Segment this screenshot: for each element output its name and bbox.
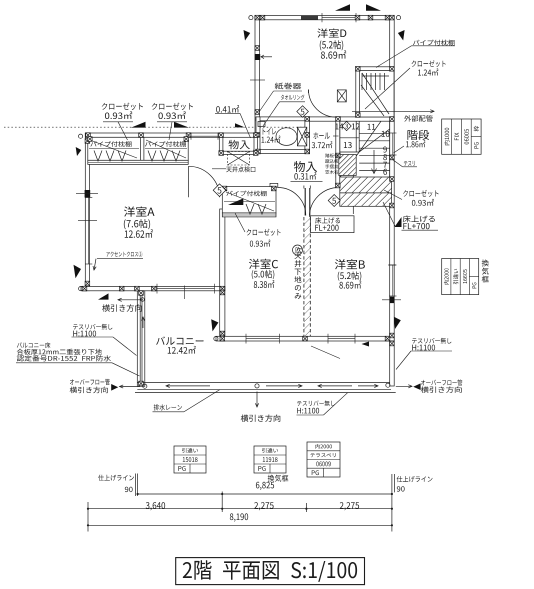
window tag 06009 r3 xyxy=(312,470,319,475)
pull-dir left arrow xyxy=(118,299,143,301)
room D closet inner lines xyxy=(358,70,360,117)
stairs treads left xyxy=(340,137,359,139)
B window top tick xyxy=(388,264,396,266)
ceiling-only vertical xyxy=(294,253,301,299)
dim line 3640/2275/2275 xyxy=(88,508,392,510)
storage 0.41 area xyxy=(216,105,239,113)
diamond num xyxy=(345,124,348,129)
flag overflow-right xyxy=(413,383,420,390)
flag balcony-right xyxy=(394,317,401,329)
raise floor 700 label xyxy=(403,215,435,222)
window tag 15018 xyxy=(174,446,206,473)
dim 8190 xyxy=(230,513,248,521)
wall: main top wall xyxy=(85,133,259,137)
window tag 16605 c3 xyxy=(472,283,476,289)
hall label xyxy=(313,132,329,139)
closet C label xyxy=(247,229,281,236)
room A closet box xyxy=(88,137,188,160)
leader closet C xyxy=(235,213,245,232)
balcony area xyxy=(168,346,196,354)
flag south-window xyxy=(362,342,370,347)
sn10 xyxy=(382,131,390,137)
dim line 8190 xyxy=(88,524,392,526)
leader 0.41 xyxy=(215,112,240,114)
overflow R2 xyxy=(421,386,462,393)
balcony right parapet xyxy=(390,341,395,386)
balcony bottom parapet xyxy=(137,382,391,384)
tiny note3 xyxy=(325,165,338,169)
drain slope arrows xyxy=(166,385,210,387)
diamond num xyxy=(332,198,336,204)
flag FL+700 xyxy=(395,217,402,227)
dim 6825 xyxy=(256,482,274,490)
wall mark square D-left xyxy=(255,54,260,60)
tiny note1 xyxy=(325,154,338,158)
external piping arrow xyxy=(352,110,434,112)
flag balcony-C-wall xyxy=(211,319,218,331)
overflow-right arrow xyxy=(396,385,412,387)
storage 0.31 underline xyxy=(291,180,323,182)
title box xyxy=(176,558,365,585)
room C closet door track xyxy=(222,213,276,217)
stairs outline xyxy=(339,121,341,177)
wall: toilet left wall xyxy=(256,117,260,153)
balcony up arrow xyxy=(142,317,144,328)
equipment box xyxy=(337,90,346,102)
toilet paper holder xyxy=(258,122,265,127)
wall: hall/stair top wall xyxy=(310,117,393,121)
stairs treads right xyxy=(359,132,390,134)
ceiling access hatch xyxy=(228,152,250,166)
room B area xyxy=(339,281,361,289)
window tag 11918 xyxy=(254,446,286,473)
balcony note 2 xyxy=(17,349,102,355)
wall: storage 0.31 right wall xyxy=(336,153,340,187)
tiny note4 xyxy=(325,170,338,174)
overflow-left arrow xyxy=(120,386,141,388)
closet A2 label xyxy=(152,103,193,110)
finish line R xyxy=(397,476,433,482)
window: corridor north window xyxy=(191,135,218,137)
room B tatami xyxy=(338,271,362,280)
tesuri-bar L2 xyxy=(73,331,96,337)
flags on eave line xyxy=(131,122,146,128)
diamond num xyxy=(301,109,305,115)
leader tesuri xyxy=(403,166,418,168)
leader paper holder xyxy=(274,90,303,92)
A south window divider xyxy=(184,286,186,300)
finish line L 90 xyxy=(125,487,133,492)
leader tesuri-bar R xyxy=(411,350,452,352)
room A label xyxy=(124,206,155,216)
waku A xyxy=(474,126,479,131)
wall: storage 0.41 right wall xyxy=(254,137,257,154)
raise floor 700 fl xyxy=(403,223,429,229)
storage 0.31 area xyxy=(294,172,316,180)
balcony wall circle xyxy=(141,298,145,302)
sn11 xyxy=(368,124,376,130)
flag storage-0.41 xyxy=(235,123,245,127)
sn13 xyxy=(344,142,352,148)
room B label xyxy=(335,259,365,269)
wall: house right wall xyxy=(390,16,395,342)
sn8 xyxy=(383,154,387,160)
overflow L1 xyxy=(70,379,110,385)
tesuri-bar L1 xyxy=(73,324,112,330)
sn9 xyxy=(383,146,387,152)
room C closet shelf xyxy=(224,201,275,203)
wall: room D left xyxy=(255,16,260,138)
dim 3640 xyxy=(146,502,165,510)
window: room A south window xyxy=(157,288,215,290)
closet1 hanger marks xyxy=(94,151,102,162)
stair label xyxy=(407,130,429,140)
eave dotted line xyxy=(4,126,308,128)
balcony label xyxy=(156,337,203,345)
balcony left parapet xyxy=(137,291,145,387)
room A closet door track xyxy=(88,160,188,164)
sn7 xyxy=(383,162,387,168)
wall mark square B-right xyxy=(390,297,395,304)
toilet tank xyxy=(297,127,306,146)
door tag 3 (stairs) xyxy=(342,121,351,130)
door tag 5 (toilet) xyxy=(297,106,309,118)
accent cloth label xyxy=(107,251,143,257)
storage 0.31 double door left xyxy=(278,188,306,216)
flag D-right xyxy=(398,30,405,41)
flag balcony-left xyxy=(98,293,109,299)
window: stair FIX window xyxy=(392,133,394,155)
window tag 06009 r1 xyxy=(310,453,335,457)
sn6 xyxy=(383,169,387,175)
stair area xyxy=(406,140,425,147)
wall mark square A-left xyxy=(85,190,91,198)
window tag 16605 xyxy=(442,259,479,295)
window tag 11918 r2 xyxy=(258,466,265,471)
extension ticks xyxy=(221,492,223,513)
door tag 5 (C closet) xyxy=(213,184,226,197)
FL+200 raised floor xyxy=(339,155,356,176)
leader stairs xyxy=(394,146,405,153)
dim 2275b xyxy=(340,502,359,510)
finish line L xyxy=(98,475,134,481)
leader closet R xyxy=(384,190,402,200)
pipe shelf C xyxy=(226,191,266,197)
title text xyxy=(183,560,357,582)
leader closet D xyxy=(365,68,410,109)
shear wall fill xyxy=(301,16,318,20)
window tag 06005 c0 xyxy=(444,128,449,146)
closet R label xyxy=(403,190,438,197)
flags D-top xyxy=(335,4,350,11)
stairs divider xyxy=(355,121,357,152)
circled mark xyxy=(293,245,303,255)
finish line R 90 xyxy=(397,486,405,491)
leader tesuri-bar bottom xyxy=(297,414,324,416)
room D tatami xyxy=(320,40,343,50)
paper holder label xyxy=(275,83,301,90)
vent frame right xyxy=(482,260,489,283)
FL+200 leader arrow xyxy=(352,170,354,214)
leader FL+700 xyxy=(402,229,439,231)
overflow L2 xyxy=(70,387,108,394)
tesuri-bar B1 xyxy=(297,400,335,406)
down arrow drain xyxy=(256,392,258,408)
dim line 6825 xyxy=(138,493,392,495)
closet R area xyxy=(412,199,434,206)
closet C area xyxy=(250,240,270,247)
door tag 5 (storage 0.31) xyxy=(328,195,340,207)
D left wall tick xyxy=(250,79,265,81)
pull dir bottom xyxy=(241,415,281,422)
wall: storage 0.31 bottom stub xyxy=(270,183,278,187)
room A tatami xyxy=(124,219,150,229)
room C tatami xyxy=(252,270,275,279)
pipe shelf A1 xyxy=(90,141,131,147)
pipe shelf A2 xyxy=(145,141,186,147)
leader drain lane xyxy=(153,411,185,413)
window tag 15018 r0 xyxy=(182,448,198,453)
closet2 hanger marks xyxy=(148,151,156,162)
room C label xyxy=(249,259,278,269)
storage 0.31 double door right xyxy=(309,188,339,218)
balcony note 3 xyxy=(17,355,111,361)
storage 0.41 label xyxy=(229,140,250,149)
window tag 06009 xyxy=(307,442,340,477)
closet shelf lines xyxy=(89,148,139,150)
closet under stairs xyxy=(340,177,392,206)
toilet label xyxy=(263,128,276,135)
window tag 11918 r1 xyxy=(263,457,278,462)
room A area xyxy=(125,229,153,238)
room A closet divider xyxy=(140,137,142,160)
room C closet box xyxy=(222,187,276,213)
closet A2 area xyxy=(158,111,185,119)
wall: main left wall xyxy=(85,133,89,291)
room D label xyxy=(317,28,346,37)
toilet bowl xyxy=(276,128,297,146)
dim dots xyxy=(137,493,139,495)
wall junction marks xyxy=(255,15,260,20)
C/B dashed partition xyxy=(303,217,305,336)
flag A-left-1 xyxy=(76,147,82,156)
ceiling access label xyxy=(226,166,255,172)
leader towel ring xyxy=(280,101,306,103)
hall area xyxy=(312,141,333,148)
tesuri-bar R1 xyxy=(412,338,451,344)
room C closet flag xyxy=(228,198,243,205)
storage 0.31 label xyxy=(294,161,317,172)
closet D area xyxy=(418,68,438,75)
window tag 06005 c3 xyxy=(474,142,478,148)
closet D label xyxy=(412,60,446,67)
window: room B east window xyxy=(392,265,394,296)
leader pipe shelf D xyxy=(412,45,456,47)
window: room D north window xyxy=(322,17,356,19)
stairs descent arrow xyxy=(373,150,375,174)
hall leader xyxy=(333,135,339,137)
tiny note2 xyxy=(325,159,338,163)
window tag 16605 c0 xyxy=(444,268,449,284)
wall: toilet bottom wall xyxy=(254,150,310,154)
window: room C south window xyxy=(246,338,279,340)
wall: room A bottom wall xyxy=(81,287,225,291)
room A door arc xyxy=(189,166,220,197)
flag overflow-left xyxy=(111,384,118,391)
wall: room C left wall xyxy=(220,209,225,341)
window tag 06009 r0 xyxy=(315,444,332,449)
balcony note 1 xyxy=(17,342,50,348)
dim 2275a xyxy=(254,502,273,510)
wall: room D top xyxy=(255,16,394,20)
room D closet xyxy=(356,67,394,117)
window tag 15018 r2 xyxy=(178,466,185,471)
tesuri label xyxy=(404,161,415,166)
room C area xyxy=(254,280,275,288)
sn12 xyxy=(352,123,360,129)
window tag 16605 c2 xyxy=(463,269,467,283)
towel ring label xyxy=(281,95,305,100)
window tag 06005 xyxy=(442,119,481,154)
wall: storage 0.41 left wall xyxy=(219,137,223,154)
wall: toilet right wall xyxy=(305,117,310,153)
vent frame bottom xyxy=(268,475,289,482)
window tag 16605 c1 xyxy=(453,269,458,284)
room D area xyxy=(321,50,346,58)
storage 0.31 door posts xyxy=(304,188,306,216)
balcony left parapet inner xyxy=(139,293,141,385)
wall end circles xyxy=(249,16,253,20)
window: room A west window xyxy=(88,198,90,265)
room A west window tick xyxy=(78,219,97,221)
tesuri-bar B2 xyxy=(297,408,319,414)
stairs winder lines xyxy=(359,129,390,152)
window: room B south window xyxy=(328,338,355,340)
drain lane label xyxy=(154,404,182,410)
raise floor 200 label xyxy=(315,217,340,223)
window tag 15018 r1 xyxy=(183,457,198,462)
wall: south wall rooms C/B xyxy=(216,336,394,341)
window tag 11918 r0 xyxy=(262,448,278,453)
leader accent cloth xyxy=(97,258,143,260)
room D door arc xyxy=(309,90,337,118)
leader tesuri-bar L xyxy=(72,336,114,338)
extension line L xyxy=(87,502,89,532)
window tag 06009 r2 xyxy=(316,462,330,467)
diamond num xyxy=(217,187,221,193)
pipe shelf D label xyxy=(413,40,454,46)
leader closet A2 xyxy=(157,121,187,123)
overflow R1 xyxy=(421,379,462,385)
tesuri-bar R2 xyxy=(412,345,435,351)
leader closet A1 xyxy=(103,121,133,123)
window tag 06005 c2 xyxy=(464,129,468,144)
room C closet hanger marks xyxy=(246,204,254,214)
wall: stair left wall xyxy=(336,121,340,178)
room D closet pipe marks xyxy=(361,73,363,90)
finish line tick R xyxy=(391,474,393,532)
FL+200 note box xyxy=(311,216,355,233)
balcony corner circles xyxy=(143,384,147,388)
wall: storage 0.41 bottom wall xyxy=(219,151,257,154)
leader balcony floor note xyxy=(16,362,112,364)
partition leader xyxy=(311,346,340,359)
window tag 06005 c1 xyxy=(455,133,459,140)
raise floor 200 fl xyxy=(315,225,338,231)
external piping label xyxy=(404,115,433,122)
flag D-left xyxy=(244,30,251,41)
finish line tick L xyxy=(134,474,136,497)
flag A-left-2 xyxy=(74,265,82,279)
circled mark char xyxy=(296,247,302,253)
pull dir left xyxy=(102,304,141,312)
closet A1 area xyxy=(105,111,132,119)
wall: toilet top wall xyxy=(256,117,310,121)
sn14 xyxy=(335,123,343,129)
toilet area xyxy=(262,136,281,143)
closet A1 label xyxy=(102,103,143,110)
